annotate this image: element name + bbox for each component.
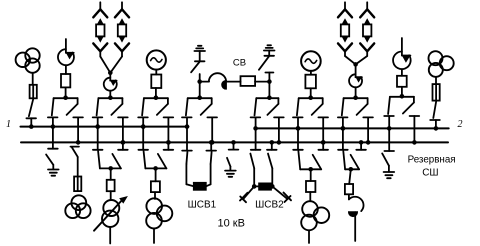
- svg-text:1: 1: [6, 119, 11, 130]
- svg-text:ШСВ2: ШСВ2: [255, 200, 284, 211]
- svg-text:СШ: СШ: [422, 168, 438, 179]
- svg-text:СВ: СВ: [233, 58, 246, 69]
- svg-text:10 кВ: 10 кВ: [217, 217, 244, 229]
- svg-text:ШСВ1: ШСВ1: [188, 199, 217, 210]
- svg-text:Резервная: Резервная: [408, 154, 456, 165]
- svg-text:2: 2: [458, 119, 463, 130]
